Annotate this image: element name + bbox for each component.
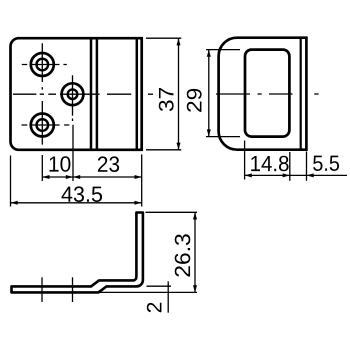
extension line 14.8 right: [289, 152, 291, 181]
arrow 10 left: [42, 175, 49, 179]
side view inner opening: [245, 50, 289, 137]
dimension line 37: [178, 38, 180, 150]
arrow 37 bottom: [177, 143, 181, 150]
extension line 14.8 left: [244, 141, 246, 180]
fold edge line: [136, 38, 139, 150]
hole H3 inner circle: [37, 119, 49, 131]
front view plate outline: [10, 38, 141, 150]
extension line 29 bottom: [206, 136, 240, 138]
hole H1 inner circle: [37, 59, 49, 71]
hole mark tick x72.5: [72, 277, 74, 302]
dimension line 26.3: [194, 212, 196, 292]
extension line 2 top: [147, 285, 172, 287]
label 29: [187, 89, 202, 112]
arrow 23 right: [135, 175, 142, 179]
extension line 37 top: [146, 37, 181, 39]
label 37: [159, 88, 174, 111]
bend line left: [90, 38, 93, 150]
label 14.8: [251, 156, 288, 172]
dimension line 2: [167, 281, 169, 312]
dimension line 43.5: [11, 202, 142, 204]
label 23: [98, 156, 119, 172]
hole mark tick x42: [41, 277, 43, 302]
arrow 29 top: [207, 50, 211, 57]
centerline horizontal hole H1: [22, 64, 67, 66]
arrow 43.5 left: [11, 201, 18, 205]
extension line x73: [72, 125, 74, 181]
arrow 23 left: [73, 175, 80, 179]
bottom view bent profile: [12, 213, 143, 293]
dimension line 29: [208, 50, 210, 137]
arrow 14.8 right: [283, 173, 290, 177]
centerline vertical hole H2: [72, 75, 74, 121]
extension line 26.3 bottom: [100, 291, 197, 293]
arrow 37 top: [177, 38, 181, 45]
arrow 29 bottom: [207, 129, 211, 136]
label 2: [147, 303, 162, 313]
arrow 10 right: [66, 175, 73, 179]
extension line x10.5: [10, 156, 12, 207]
extension line 29 top: [206, 49, 240, 51]
hole H3 outer circle: [31, 114, 54, 137]
side view outer outline: [219, 38, 307, 150]
arrow 26.3 bottom: [193, 285, 197, 292]
centerline vertical holes H1 H3: [41, 43, 43, 144]
side view plate inner face line: [300, 38, 302, 150]
hole H1 outer circle: [31, 53, 54, 76]
dimension line 14.8 and 5.5: [245, 174, 347, 176]
label 26.3: [175, 234, 191, 276]
dimension line 10-23: [42, 176, 141, 178]
hole H2 outer circle: [62, 83, 84, 105]
arrow 43.5 right: [135, 201, 142, 205]
hole H2 inner circle: [68, 89, 78, 99]
extension line 37 bottom: [146, 149, 181, 151]
extension line 5.5 right: [306, 152, 308, 181]
extension line x42: [41, 155, 43, 181]
label 43.5: [61, 186, 102, 202]
label 10: [50, 156, 71, 172]
centerline horizontal hole H3: [22, 124, 70, 126]
arrow 5.5 right outside: [307, 173, 314, 177]
label 5.5: [313, 156, 339, 171]
bend line right: [96, 38, 99, 150]
extension line 26.3 top: [146, 211, 198, 213]
arrow 26.3 top: [193, 212, 197, 219]
arrow 14.8 left: [245, 173, 252, 177]
extension line x141.7: [141, 154, 143, 206]
centerline side view: [216, 93, 319, 95]
centerline horizontal main: [13, 93, 153, 95]
